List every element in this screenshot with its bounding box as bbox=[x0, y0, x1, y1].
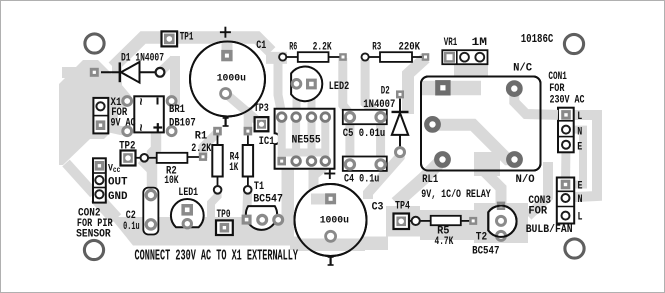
wire trace D1 cathode up to C1 left bbox=[160, 59, 174, 72]
svg-text:T2: T2 bbox=[476, 231, 487, 244]
wire trace CON1 area down-left to band bbox=[528, 162, 548, 216]
capacitor C3 negative pad bbox=[326, 231, 336, 241]
test point TP3 box redraw bbox=[255, 117, 269, 131]
svg-text:R6: R6 bbox=[289, 40, 297, 53]
svg-text:LED2: LED2 bbox=[329, 80, 349, 92]
wire trace R3 right pad down to relay / D2 column bbox=[408, 58, 426, 114]
svg-text:BULB/FAN: BULB/FAN bbox=[526, 224, 573, 237]
svg-text:1000u: 1000u bbox=[217, 72, 246, 83]
svg-text:TP3: TP3 bbox=[254, 102, 269, 114]
resistor R6 pads bbox=[279, 53, 286, 60]
svg-text:C4 0.1u: C4 0.1u bbox=[344, 173, 379, 185]
capacitor C1 negative pad bbox=[221, 89, 231, 99]
wire trace IC pin1 column down to band bbox=[282, 168, 295, 235]
svg-text:BR1: BR1 bbox=[169, 104, 185, 116]
resistor R3 body bbox=[380, 52, 412, 62]
connector CON1 body bbox=[558, 108, 574, 153]
wire trace R4 top pad up bbox=[244, 107, 253, 131]
wire trace VR1 pads down to relay bbox=[454, 64, 488, 80]
mounting hole top-right bbox=[564, 34, 583, 53]
svg-text:1N4007: 1N4007 bbox=[363, 99, 395, 111]
svg-text:SENSOR: SENSOR bbox=[76, 228, 111, 241]
svg-text:D1 1N4007: D1 1N4007 bbox=[121, 51, 164, 64]
LED2 pads bbox=[292, 80, 301, 89]
svg-text:FOR: FOR bbox=[528, 205, 547, 217]
connector CON3 pads bbox=[561, 180, 571, 190]
svg-text:2.2K: 2.2K bbox=[313, 40, 332, 53]
resistor R2 body bbox=[157, 153, 188, 163]
test point TP2 bbox=[121, 151, 136, 166]
LED1 pads bbox=[181, 204, 193, 216]
test point TP0 pad bbox=[220, 223, 230, 233]
wire trace C1 round pad to TP3 bbox=[226, 94, 262, 125]
wire trace TP4 blob bbox=[386, 206, 420, 237]
capacitor C1 minus mark bbox=[225, 118, 227, 126]
svg-text:1000u: 1000u bbox=[320, 214, 349, 225]
svg-text:~: ~ bbox=[133, 98, 148, 106]
resistor R3 pads bbox=[362, 53, 369, 60]
diode D2 pads bbox=[396, 90, 404, 98]
svg-text:TP2: TP2 bbox=[119, 141, 135, 153]
wire trace R6 pad down to C5 bbox=[343, 58, 350, 114]
svg-text:VR1: VR1 bbox=[444, 35, 458, 48]
node D1 cathode pad bbox=[156, 68, 165, 77]
test point TP4 pad bbox=[396, 217, 406, 227]
wire trace D2 pad down bbox=[368, 152, 400, 199]
test point TP0 bbox=[216, 220, 233, 235]
wire trace CON1 E down to CON3 E bbox=[561, 145, 571, 185]
transistor T1 pads bbox=[242, 215, 252, 225]
svg-text:IC1: IC1 bbox=[259, 136, 275, 148]
svg-text:E: E bbox=[578, 179, 583, 191]
connector X1 pads bbox=[96, 102, 104, 110]
wire trace T2 blob bbox=[474, 203, 528, 243]
svg-text:220K: 220K bbox=[399, 42, 421, 54]
IC U1 pads pins 1-8 bbox=[277, 113, 286, 122]
wire trace band through C3 bbox=[296, 239, 365, 252]
diode D2 symbol bbox=[399, 99, 401, 111]
svg-text:TP1: TP1 bbox=[180, 30, 194, 43]
wire trace R5 blob bbox=[420, 210, 478, 240]
wire trace relay top-left bar bbox=[421, 81, 481, 96]
wire trace R4 bottom pad down to T1 bbox=[247, 190, 248, 219]
capacitor C3 body bbox=[295, 184, 367, 256]
capacitor C1 positive pad bbox=[221, 50, 232, 61]
test point TP3 bbox=[255, 117, 269, 131]
capacitor C3 positive pad bbox=[325, 193, 336, 204]
capacitor C1 outline restroke bbox=[190, 42, 265, 117]
svg-text:1K: 1K bbox=[229, 161, 238, 174]
wire trace X1 to BR1 bbox=[101, 102, 128, 106]
test point TP2 pad bbox=[123, 153, 133, 163]
resistor R4 pads bbox=[244, 127, 253, 136]
test point TP1 bbox=[162, 31, 178, 46]
svg-text:R3: R3 bbox=[372, 40, 381, 53]
node D1 anode pad bbox=[90, 68, 99, 77]
capacitor C1 body bbox=[190, 42, 265, 117]
svg-text:R1: R1 bbox=[195, 130, 207, 142]
svg-text:N/O: N/O bbox=[516, 174, 536, 186]
connector CON1 pads bbox=[561, 110, 571, 120]
capacitor C4 pads bbox=[345, 160, 354, 169]
svg-text:N: N bbox=[578, 193, 583, 205]
resistor R4 body bbox=[243, 145, 253, 177]
IC U1 NE555 body bbox=[275, 109, 335, 169]
wire trace CON1 N loop right down to CON3 E bbox=[566, 130, 583, 185]
test point TP4 bbox=[394, 214, 410, 230]
svg-text:9V, 1C/O RELAY: 9V, 1C/O RELAY bbox=[421, 188, 491, 200]
capacitor C3 minus mark bbox=[330, 257, 332, 265]
capacitor C4 body bbox=[343, 157, 387, 171]
svg-text:D2: D2 bbox=[381, 84, 390, 97]
wire trace bottom band left wedge bbox=[96, 197, 116, 219]
svg-text:NE555: NE555 bbox=[292, 134, 321, 147]
capacitor C2 pads bbox=[146, 190, 155, 199]
transistor Q1 T1 body bbox=[246, 206, 277, 230]
transistor Q2 T2 body bbox=[488, 206, 516, 237]
wire trace C5 to C4 columns bbox=[345, 117, 354, 164]
wire trace R2 right pad up to R1 top pad bbox=[203, 133, 218, 159]
wire trace bottom ground band bbox=[110, 217, 294, 246]
potentiometer VR1 pads bbox=[444, 52, 455, 63]
potentiometer VR1 body bbox=[442, 50, 487, 64]
capacitor C2 body bbox=[143, 188, 158, 235]
test point TP3 pad bbox=[257, 120, 266, 129]
capacitor C1 plus mark bbox=[220, 31, 231, 33]
svg-text:CONNECT 230V AC TO X1 EXTERNAL: CONNECT 230V AC TO X1 EXTERNALLY bbox=[135, 247, 299, 264]
svg-text:CON1: CON1 bbox=[548, 70, 567, 83]
svg-text:10186C: 10186C bbox=[521, 33, 554, 47]
svg-text:DB107: DB107 bbox=[169, 118, 196, 130]
mounting hole bottom-left bbox=[84, 240, 103, 259]
mounting hole top-left bbox=[85, 34, 104, 53]
transistor T2 pads bbox=[497, 202, 505, 210]
svg-text:C5 0.01u: C5 0.01u bbox=[343, 127, 385, 139]
bridge rectifier BR1 pads bbox=[123, 97, 132, 106]
svg-text:~: ~ bbox=[133, 124, 148, 132]
svg-text:TP4: TP4 bbox=[395, 199, 410, 211]
wire trace pour tail to CON2 / band bbox=[66, 163, 94, 194]
svg-text:4.7K: 4.7K bbox=[435, 235, 454, 248]
resistor R5 body bbox=[431, 216, 461, 225]
resistor R1 body bbox=[212, 145, 222, 177]
svg-text:N: N bbox=[577, 125, 582, 137]
svg-text:GND: GND bbox=[108, 191, 128, 203]
wire trace C3 square pad stub bbox=[311, 194, 331, 205]
LED2 body bbox=[291, 67, 322, 102]
wire trace relay TR pad to CON1 L bbox=[514, 89, 558, 115]
wire trace relay BL pad diagonal to TP4 area bbox=[396, 160, 443, 204]
connector CON2 body bbox=[93, 158, 106, 202]
svg-text:RL1: RL1 bbox=[422, 174, 438, 186]
diode D1 symbol bbox=[101, 71, 119, 73]
capacitor C3 outline restroke bbox=[295, 184, 367, 256]
svg-text:BC547: BC547 bbox=[472, 246, 499, 258]
svg-text:C1: C1 bbox=[256, 39, 266, 51]
resistor R2 pads bbox=[141, 154, 149, 162]
wire trace D1 anode to pour bbox=[62, 67, 98, 78]
wire trace inside IC U1 bbox=[292, 117, 300, 161]
connector CON3 body bbox=[557, 178, 574, 224]
wire trace CON1 L loop right down to CON3 N bbox=[566, 115, 597, 198]
wire trace into C1 square pad bbox=[222, 37, 233, 56]
capacitor C5 pads bbox=[345, 113, 354, 122]
wire trace R1 bottom pad down to band bbox=[211, 190, 218, 218]
connector CON2 pads bbox=[95, 161, 105, 171]
svg-text:C3: C3 bbox=[372, 201, 384, 214]
wire trace R6 left pad down to IC pin1 bbox=[278, 58, 282, 114]
wire trace R3 pad down to C5 bbox=[365, 60, 378, 115]
wire left copper pour around X1 bbox=[59, 60, 118, 165]
svg-text:10K: 10K bbox=[164, 174, 179, 187]
wire trace LED2 pads down to IC pins bbox=[293, 86, 301, 115]
resistor R6 body bbox=[298, 52, 329, 62]
LED1 body bbox=[171, 199, 204, 227]
svg-text:OUT: OUT bbox=[108, 176, 128, 188]
svg-text:230V AC: 230V AC bbox=[550, 94, 585, 106]
svg-text:2.2K: 2.2K bbox=[191, 142, 211, 154]
wire trace relay BR column down to T2 bbox=[474, 152, 500, 176]
svg-text:L: L bbox=[577, 110, 582, 122]
svg-text:LED1: LED1 bbox=[178, 186, 198, 198]
svg-text:L: L bbox=[578, 211, 583, 223]
wire trace relay middle-left to bottom-right bbox=[433, 125, 515, 160]
wire trace IC pin8 to C3 square pad bbox=[314, 161, 326, 176]
relay RL1 outline restroke bbox=[421, 77, 541, 171]
transistor T2 outline restroke bbox=[488, 206, 516, 237]
svg-text:0.1u: 0.1u bbox=[123, 219, 139, 232]
svg-text:BC547: BC547 bbox=[253, 193, 283, 206]
test point TP1 pad bbox=[164, 34, 175, 45]
relay RL1 body bbox=[421, 77, 541, 171]
svg-text:T1: T1 bbox=[254, 180, 264, 192]
resistor R1 pads bbox=[213, 127, 222, 136]
svg-text:N/C: N/C bbox=[513, 62, 533, 74]
resistor R5 right pad bbox=[469, 217, 477, 225]
wire trace TP1 band from BR1 area to R6 bbox=[117, 62, 127, 99]
connector X1 body bbox=[93, 98, 108, 133]
svg-text:1M: 1M bbox=[472, 36, 487, 49]
svg-text:TP0: TP0 bbox=[217, 208, 231, 221]
svg-text:9V AC: 9V AC bbox=[111, 117, 136, 129]
capacitor C3 plus mark bbox=[324, 173, 335, 175]
mounting hole bottom-right bbox=[565, 239, 584, 258]
svg-text:E: E bbox=[577, 141, 582, 153]
wire trace BR1 down to C2 bbox=[152, 132, 156, 196]
relay RL1 pads bbox=[435, 80, 450, 95]
capacitor C5 body bbox=[343, 110, 387, 124]
bridge rectifier BR1 body bbox=[134, 96, 164, 132]
